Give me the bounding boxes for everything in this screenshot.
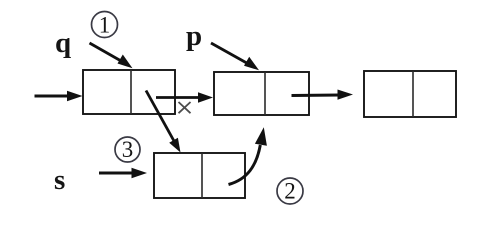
- svg-text:s: s: [54, 164, 65, 196]
- arrow: step 1 pointer into node 1 next field: [90, 43, 133, 68]
- arrow: new link node1.next -> node s (diagonal): [146, 91, 181, 153]
- svg-text:p: p: [186, 20, 202, 52]
- node box 3: [364, 71, 456, 117]
- node box 1 (q node): [83, 70, 175, 114]
- node box 2 (p node): [214, 72, 309, 115]
- arrow: node 2 next field out to the right: [292, 90, 354, 100]
- circled step 2: [277, 178, 303, 204]
- arrow: old link node1 -> node2 (being cut): [156, 92, 213, 102]
- circled step 1: [92, 12, 118, 38]
- label s: [54, 164, 65, 196]
- arrow: list head into node 1: [35, 91, 83, 101]
- arrow: curved link s.next -> node 2 (step 2): [229, 127, 267, 184]
- node box s (new node): [154, 153, 245, 198]
- label q: [55, 27, 71, 59]
- svg-text:1: 1: [99, 13, 111, 38]
- cross mark on old link: [179, 102, 191, 113]
- label p: [186, 20, 202, 52]
- arrow: p pointer into node 2: [211, 43, 259, 70]
- svg-text:2: 2: [284, 179, 296, 204]
- svg-text:3: 3: [122, 137, 134, 162]
- arrow: s pointer into node s: [99, 168, 147, 178]
- circled step 3: [115, 137, 140, 162]
- svg-text:q: q: [55, 27, 71, 59]
